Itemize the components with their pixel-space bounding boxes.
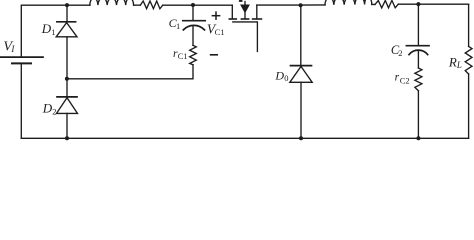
resistor rL2 bbox=[375, 0, 398, 8]
svg-text:2: 2 bbox=[398, 48, 402, 58]
wire bbox=[20, 63, 22, 138]
wire bbox=[67, 4, 90, 6]
node G bbox=[299, 136, 303, 140]
node C bbox=[65, 77, 69, 81]
svg-text:D: D bbox=[274, 69, 284, 83]
resistor RL bbox=[465, 4, 472, 138]
svg-text:D: D bbox=[42, 101, 53, 116]
plus sign bbox=[212, 12, 219, 19]
node H bbox=[416, 136, 420, 140]
resistor rL1 bbox=[140, 1, 163, 9]
label D1 bbox=[41, 21, 56, 37]
inductor L1 bbox=[90, 0, 134, 5]
minus sign bbox=[211, 54, 218, 56]
svg-text:C1: C1 bbox=[215, 27, 225, 37]
resistor rC2 bbox=[415, 68, 422, 91]
wire bbox=[21, 5, 67, 57]
diode D0 bbox=[290, 5, 312, 138]
wire bbox=[372, 3, 375, 5]
label C2 bbox=[391, 43, 403, 58]
label D2 bbox=[42, 101, 57, 117]
label rC2 bbox=[395, 71, 410, 85]
wire bbox=[21, 137, 468, 139]
label VC1 bbox=[207, 21, 225, 36]
voltage source VI bbox=[0, 57, 43, 63]
node A bbox=[65, 3, 69, 7]
wire bbox=[398, 3, 468, 5]
wire bbox=[67, 65, 193, 79]
wire bbox=[417, 91, 419, 139]
label VI bbox=[3, 39, 15, 54]
wire bbox=[257, 4, 325, 6]
svg-text:0: 0 bbox=[284, 73, 288, 83]
svg-text:1: 1 bbox=[51, 27, 55, 37]
svg-text:1: 1 bbox=[176, 21, 180, 31]
svg-text:C1: C1 bbox=[178, 51, 188, 61]
wire bbox=[134, 4, 141, 6]
svg-text:C2: C2 bbox=[400, 76, 410, 86]
svg-text:D: D bbox=[41, 21, 52, 36]
inductor L2 bbox=[325, 0, 372, 5]
label rC1 bbox=[173, 48, 188, 61]
svg-text:R: R bbox=[448, 54, 457, 69]
svg-text:L: L bbox=[456, 60, 462, 70]
transistor S1 (MOSFET) bbox=[229, 0, 261, 52]
node B bbox=[191, 3, 195, 7]
label RL bbox=[448, 54, 462, 70]
node E bbox=[299, 3, 303, 7]
resistor rC1 bbox=[190, 45, 197, 64]
label D0 bbox=[274, 69, 288, 84]
wire bbox=[163, 4, 233, 6]
capacitor C1 bbox=[183, 5, 205, 45]
capacitor C2 bbox=[406, 4, 429, 68]
node F bbox=[416, 2, 420, 6]
diode D1 bbox=[56, 5, 77, 79]
svg-text:2: 2 bbox=[52, 107, 56, 117]
diode D2 bbox=[57, 79, 78, 139]
label C1 bbox=[169, 16, 181, 31]
node D bbox=[65, 136, 69, 140]
